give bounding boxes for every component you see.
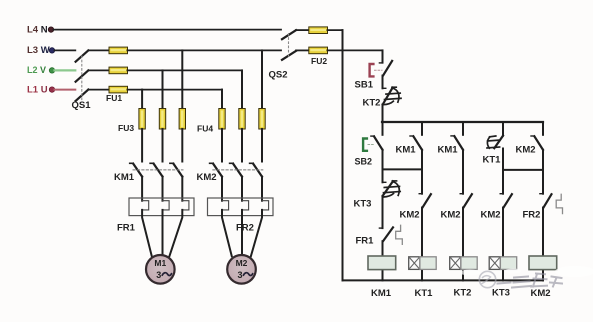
thermal relay FR2 heater element 2	[242, 201, 249, 210]
contact KM1 NO (branch3) seat tick	[451, 135, 454, 137]
contact KM1 NO (branch3) blade	[454, 136, 463, 150]
wire branch3 bus drop	[462, 122, 464, 135]
contact KM2 NC (branch2) seat tick	[419, 193, 422, 195]
contact KM2 NC (branch2) blade	[423, 194, 431, 207]
wire branch1 bus to SB2	[382, 122, 384, 135]
coil KT1 delay box with X	[409, 257, 420, 270]
wire drop L3 to FU4 column 3	[261, 50, 263, 108]
wire drop L1 to FU3 column 1	[141, 90, 143, 109]
timer contact KT1 (branch4) blade	[494, 136, 503, 149]
pushbutton SB1 actuator (red bracket)	[370, 64, 374, 76]
wire QS1 to FU1 pole L2	[88, 69, 109, 71]
wire FU4 col2 to KM2	[241, 129, 243, 162]
wire control left rail (vertical)	[342, 30, 344, 280]
wire through KM1 coil	[382, 256, 384, 280]
timer contact KT2 seat tick	[383, 87, 386, 89]
svg-text:M2: M2	[236, 258, 248, 268]
svg-text:SB2: SB2	[355, 157, 373, 167]
wire drop L2 to FU4 column 2	[241, 70, 243, 108]
wire FU4 col1 to KM2	[221, 129, 223, 162]
svg-text:L2 V: L2 V	[27, 65, 46, 75]
timer contact KT2 delay arcs	[383, 88, 401, 105]
thermal relay FR1 heater element 1	[142, 201, 149, 210]
coil KT3 delay box with X	[489, 257, 500, 270]
wire FR1 to KM1 coil	[382, 241, 384, 256]
svg-text:KM1: KM1	[396, 145, 417, 156]
wire FU3 col1 to KM1	[141, 129, 143, 162]
coil KT2 delay box with X	[450, 257, 461, 270]
svg-text:L4 N: L4 N	[27, 25, 48, 36]
wire FR1 heater2 to motor M1	[162, 210, 164, 255]
pushbutton SB1 contact seat tick	[379, 62, 382, 64]
contactor KM1 main contact pole 3	[170, 163, 182, 176]
fuse FU4 element 2	[239, 109, 245, 130]
svg-text:SB1: SB1	[355, 80, 374, 91]
wire QS2 to FU2 upper	[296, 29, 309, 31]
contactor KM2 main contact pole 1	[210, 163, 222, 176]
wire SB1 to KT2	[382, 76, 384, 89]
wire branch5 KM2 to FR2	[542, 150, 544, 194]
thermal contact FR1 NC blade	[383, 227, 393, 241]
fuse FU3 element 2	[159, 109, 165, 130]
svg-text:L1 U: L1 U	[27, 85, 48, 96]
wire branch3 to KT2 coil	[462, 208, 464, 281]
pushbutton SB2 actuator (green bracket)	[363, 139, 367, 151]
wire branch5 bus drop	[542, 122, 544, 135]
svg-text:KT2: KT2	[363, 98, 381, 109]
wire drop L1 to FU4 column 1	[221, 90, 223, 109]
switch QS1 blade pole L3	[76, 50, 89, 61]
wire KM2 pole2 to FR2	[241, 177, 243, 201]
node L3 terminal dot	[49, 48, 54, 53]
svg-text:KM2: KM2	[516, 145, 536, 156]
wire L3 after FU1 to QS2	[128, 49, 282, 51]
fuse FU1 pole L3	[109, 47, 128, 54]
switch QS1 mechanical link (dotted)	[81, 56, 83, 100]
wire FU4 col3 to KM2	[261, 129, 263, 162]
svg-text:3: 3	[156, 270, 161, 280]
contactor KM1 main contact pole 2	[150, 163, 162, 176]
wire branch2 to KT1 coil	[421, 208, 423, 281]
fuse FU4 element 3	[259, 109, 265, 130]
thermal contact FR2 seat tick	[540, 193, 543, 195]
contactor KM2 mechanical link dashed	[213, 169, 263, 171]
fuse FU3 element 3	[179, 109, 185, 130]
wire FU3 col2 to KM1	[162, 129, 164, 162]
wire FR1 heater1 to motor M1	[142, 210, 152, 256]
svg-text:KT1: KT1	[483, 155, 502, 166]
thermal contact FR2 reset hook	[556, 194, 562, 213]
wire corner down to SB1	[382, 50, 384, 62]
wire L2 after FU1 to FU4 corner	[128, 69, 243, 71]
wire N line horizontal	[54, 29, 282, 31]
svg-text:KM2: KM2	[481, 210, 501, 221]
wire drop L2 to FU3 column 2	[162, 70, 164, 108]
wire QS1 to FU1 pole L1	[88, 89, 109, 91]
wire KT3 to FR1	[382, 196, 384, 228]
switch QS2 blade pole N	[282, 30, 296, 39]
timer contact KT3 delay arcs	[383, 182, 400, 197]
motor M1	[146, 255, 175, 284]
wire KT2 to bus	[382, 105, 384, 123]
node L1 terminal dot	[49, 87, 54, 92]
wire bottom bus	[343, 279, 544, 281]
wire FR1 heater3 to motor M1	[169, 210, 182, 257]
wire L1 to QS1 (red)	[55, 89, 76, 91]
wire KM1 pole3 to FR1	[181, 177, 183, 201]
svg-text:L3 W: L3 W	[27, 45, 50, 56]
contactor KM2 main contact pole 3	[250, 163, 262, 176]
switch QS2 blade pole L3	[282, 51, 296, 60]
thermal relay FR2 heater element 1	[222, 201, 229, 210]
svg-text:KM2: KM2	[400, 210, 420, 221]
svg-text:KM2: KM2	[531, 288, 551, 299]
svg-text:FU2: FU2	[311, 56, 327, 66]
motor M2	[227, 255, 256, 284]
watermark white haze	[460, 266, 593, 277]
wire FU2 upper to left rail corner	[328, 29, 343, 31]
timer contact KT2 blade	[383, 87, 397, 104]
svg-text:KM1: KM1	[438, 145, 459, 156]
wire KM2 pole1 to FR2	[221, 177, 223, 201]
svg-text:KT2: KT2	[454, 288, 472, 299]
svg-text:KM1: KM1	[114, 172, 135, 183]
switch QS2 mechanical link (dotted)	[288, 34, 290, 58]
wire branch4 KT1 to KM2	[502, 149, 504, 194]
fuse FU3 element 1	[139, 109, 145, 130]
wire L2 to QS1 (green)	[55, 69, 76, 71]
contact KM2 NC (branch4) seat tick	[500, 193, 503, 195]
wire branch3 KM1 to KM2	[462, 150, 464, 194]
contactor KM1 mechanical link dashed	[133, 169, 183, 171]
watermark text strokes	[498, 274, 563, 288]
thermal contact FR1 seat tick	[379, 227, 382, 229]
wire branch4 bus drop	[502, 122, 504, 136]
contact KM2 NC (branch3) blade	[464, 194, 472, 207]
thermal contact FR2 NC blade	[544, 194, 552, 207]
svg-text:KT3: KT3	[492, 288, 510, 299]
svg-text:3: 3	[237, 270, 242, 280]
watermark logo circle	[479, 271, 495, 287]
svg-text:FU3: FU3	[118, 123, 134, 133]
wire KM2 pole3 to FR2	[261, 177, 263, 201]
svg-text:KT3: KT3	[354, 199, 372, 210]
wire drop L3 to FU3 column 3	[181, 50, 183, 108]
contact KM2 NC (branch3) seat tick	[460, 193, 463, 195]
pushbutton SB1 dashed link	[375, 69, 383, 71]
thermal contact FR1 reset hook	[396, 225, 403, 244]
thermal relay FR1 heater element 2	[163, 201, 170, 210]
svg-text:KM1: KM1	[371, 288, 392, 299]
timer contact KT3 seat tick	[383, 181, 386, 183]
svg-text:KT1: KT1	[415, 288, 434, 299]
wire FU2 lower to SB1 corner	[328, 49, 383, 51]
wire FR2 heater2 to motor M2	[241, 210, 243, 255]
wire control top bus	[382, 121, 543, 123]
thermal relay FR1 heater element 3	[182, 201, 189, 210]
svg-text:FR1: FR1	[356, 236, 375, 247]
svg-text:FU1: FU1	[106, 93, 122, 103]
wire QS2 to FU2 lower	[296, 49, 309, 51]
contactor KM2 main contact pole 2	[230, 163, 242, 176]
timer contact KT1 delay arcs (left)	[487, 136, 500, 148]
svg-text:FR2: FR2	[236, 223, 254, 234]
node L2 terminal dot	[49, 68, 54, 73]
wire rail segment branch4-branch5	[503, 169, 543, 171]
thermal relay FR2 box	[208, 198, 274, 216]
wire branch2 bus drop	[421, 122, 423, 135]
svg-text:KM2: KM2	[197, 172, 217, 183]
pushbutton SB2 NO blade	[371, 136, 383, 150]
wire L3 to QS1	[55, 49, 76, 51]
svg-text:KM2: KM2	[441, 210, 461, 221]
node L4 terminal dot	[48, 27, 53, 32]
coil KM1	[368, 256, 396, 270]
wire FR2 heater1 to motor M2	[222, 210, 232, 256]
fuse FU2 element upper	[309, 27, 328, 34]
contact KM1 NO (branch2) blade	[413, 136, 422, 150]
switch QS1 blade pole L2	[76, 70, 89, 81]
svg-text:QS2: QS2	[269, 70, 288, 81]
svg-text:FU4: FU4	[197, 124, 213, 134]
coil KT2	[461, 257, 477, 270]
contact KM2 NO (branch5) seat tick	[531, 135, 534, 137]
coil KM2	[529, 256, 557, 270]
wire KM1 pole2 to FR1	[162, 177, 164, 201]
wire QS1 to FU1 pole L3	[88, 49, 109, 51]
svg-text:FR2: FR2	[523, 210, 541, 221]
fuse FU2 element lower	[309, 47, 328, 54]
contact KM1 NO (branch2 self-hold) seat tick	[410, 135, 413, 137]
wire KM1 pole1 to FR1	[141, 177, 143, 201]
thermal relay FR2 heater element 3	[262, 201, 269, 210]
contact KM2 NC (branch4) blade	[504, 194, 512, 207]
wire branch4 to KT3 coil	[502, 208, 504, 281]
contactor KM1 main contact pole 1	[130, 163, 142, 176]
coil KT1	[420, 257, 436, 270]
svg-text:FR1: FR1	[117, 223, 136, 234]
wire rail segment branch1-branch2	[383, 168, 423, 170]
svg-text:QS1: QS1	[72, 100, 92, 111]
switch QS1 blade pole L1	[76, 90, 89, 101]
wire L1 after FU1 to FU4 corner	[128, 89, 223, 91]
pushbutton SB1 NC blade	[383, 61, 392, 76]
svg-text:M1: M1	[154, 258, 166, 268]
wire branch2 KM1 to KM2	[421, 150, 423, 194]
wire SB2 down through rail to KT3	[382, 150, 384, 183]
thermal relay FR1 box	[129, 198, 194, 216]
coil KT3	[500, 257, 516, 270]
fuse FU1 pole L1	[109, 86, 128, 93]
fuse FU1 pole L2	[109, 67, 128, 74]
wire FR2 heater3 to motor M2	[251, 210, 262, 257]
wire branch5 to KM2 coil	[542, 208, 544, 281]
fuse FU4 element 1	[219, 109, 225, 130]
wire FU3 col3 to KM1	[181, 129, 183, 162]
pushbutton SB2 dashed link	[368, 144, 375, 146]
timer contact KT3 blade	[383, 181, 397, 196]
contact KM2 NO (branch5) blade	[534, 136, 543, 150]
